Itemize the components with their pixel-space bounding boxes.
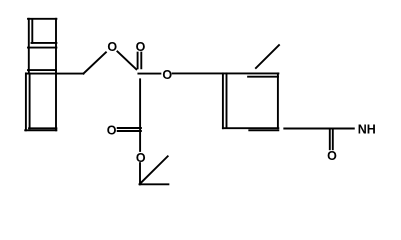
- svg-text:O: O: [162, 68, 172, 82]
- svg-text:NH: NH: [358, 123, 376, 137]
- wire fluorene left edge upper: [28, 19, 30, 74]
- wire lower carbonyl double bond top line: [118, 127, 141, 129]
- wire carbonyl double bond upper left line: [137, 53, 139, 69]
- wire amide carbonyl double bond right line: [332, 130, 334, 150]
- wire benzene top inner double-bond line: [248, 76, 278, 78]
- wire fluorene bottom-ring outer double-bond horizontal: [25, 129, 56, 131]
- wire fluorene middle-ring bottom edge: [28, 69, 56, 71]
- wire benzene left edge outer: [222, 73, 224, 128]
- wire isopropyl horizontal methyl: [140, 183, 169, 185]
- wire bond CH2 to ester O: [83, 52, 106, 73]
- wire fluorene bottom-ring top edge and bond to CH2: [26, 73, 83, 75]
- wire benzene bottom edge: [223, 127, 278, 129]
- wire bond ester O to central atom: [117, 52, 136, 70]
- wire benzene left edge inner double-bond: [226, 73, 228, 126]
- wire methyl bond on benzene: [256, 45, 279, 68]
- svg-text:O: O: [327, 149, 337, 163]
- wire bond right ester O to benzene ring and ring top edge: [173, 72, 279, 74]
- wire fluorene right edge: [55, 19, 57, 131]
- wire fluorene top-ring inner double-bond horizontal: [32, 42, 57, 44]
- wire amide carbonyl double bond left line: [329, 130, 331, 150]
- wire bond lower O to isopropyl CH: [139, 163, 141, 184]
- svg-text:O: O: [136, 40, 146, 54]
- wire lower carbonyl double bond bottom line: [118, 130, 141, 132]
- wire fluorene bottom-ring bottom edge: [29, 127, 56, 129]
- svg-text:O: O: [136, 151, 146, 165]
- wire central vertical chain down: [139, 79, 141, 151]
- wire fluorene bottom-ring left edge: [29, 74, 31, 129]
- wire bond central atom to right ester O: [138, 73, 160, 75]
- wire fluorene shared edge between top and middle ring: [28, 47, 56, 49]
- wire fluorene top-ring top edge: [28, 18, 56, 20]
- wire isopropyl diagonal methyl: [140, 156, 168, 184]
- wire carbonyl double bond upper right line: [140, 53, 142, 69]
- wire fluorene top-ring inner double-bond vertical: [31, 19, 33, 43]
- svg-text:O: O: [107, 40, 117, 54]
- wire benzene bottom outer double-bond line: [249, 129, 278, 131]
- wire bond benzene to amide carbon and on to N: [284, 128, 354, 130]
- wire fluorene bottom-ring outer double-bond vertical: [25, 73, 27, 130]
- wire benzene right edge: [277, 73, 279, 128]
- svg-text:O: O: [107, 124, 117, 138]
